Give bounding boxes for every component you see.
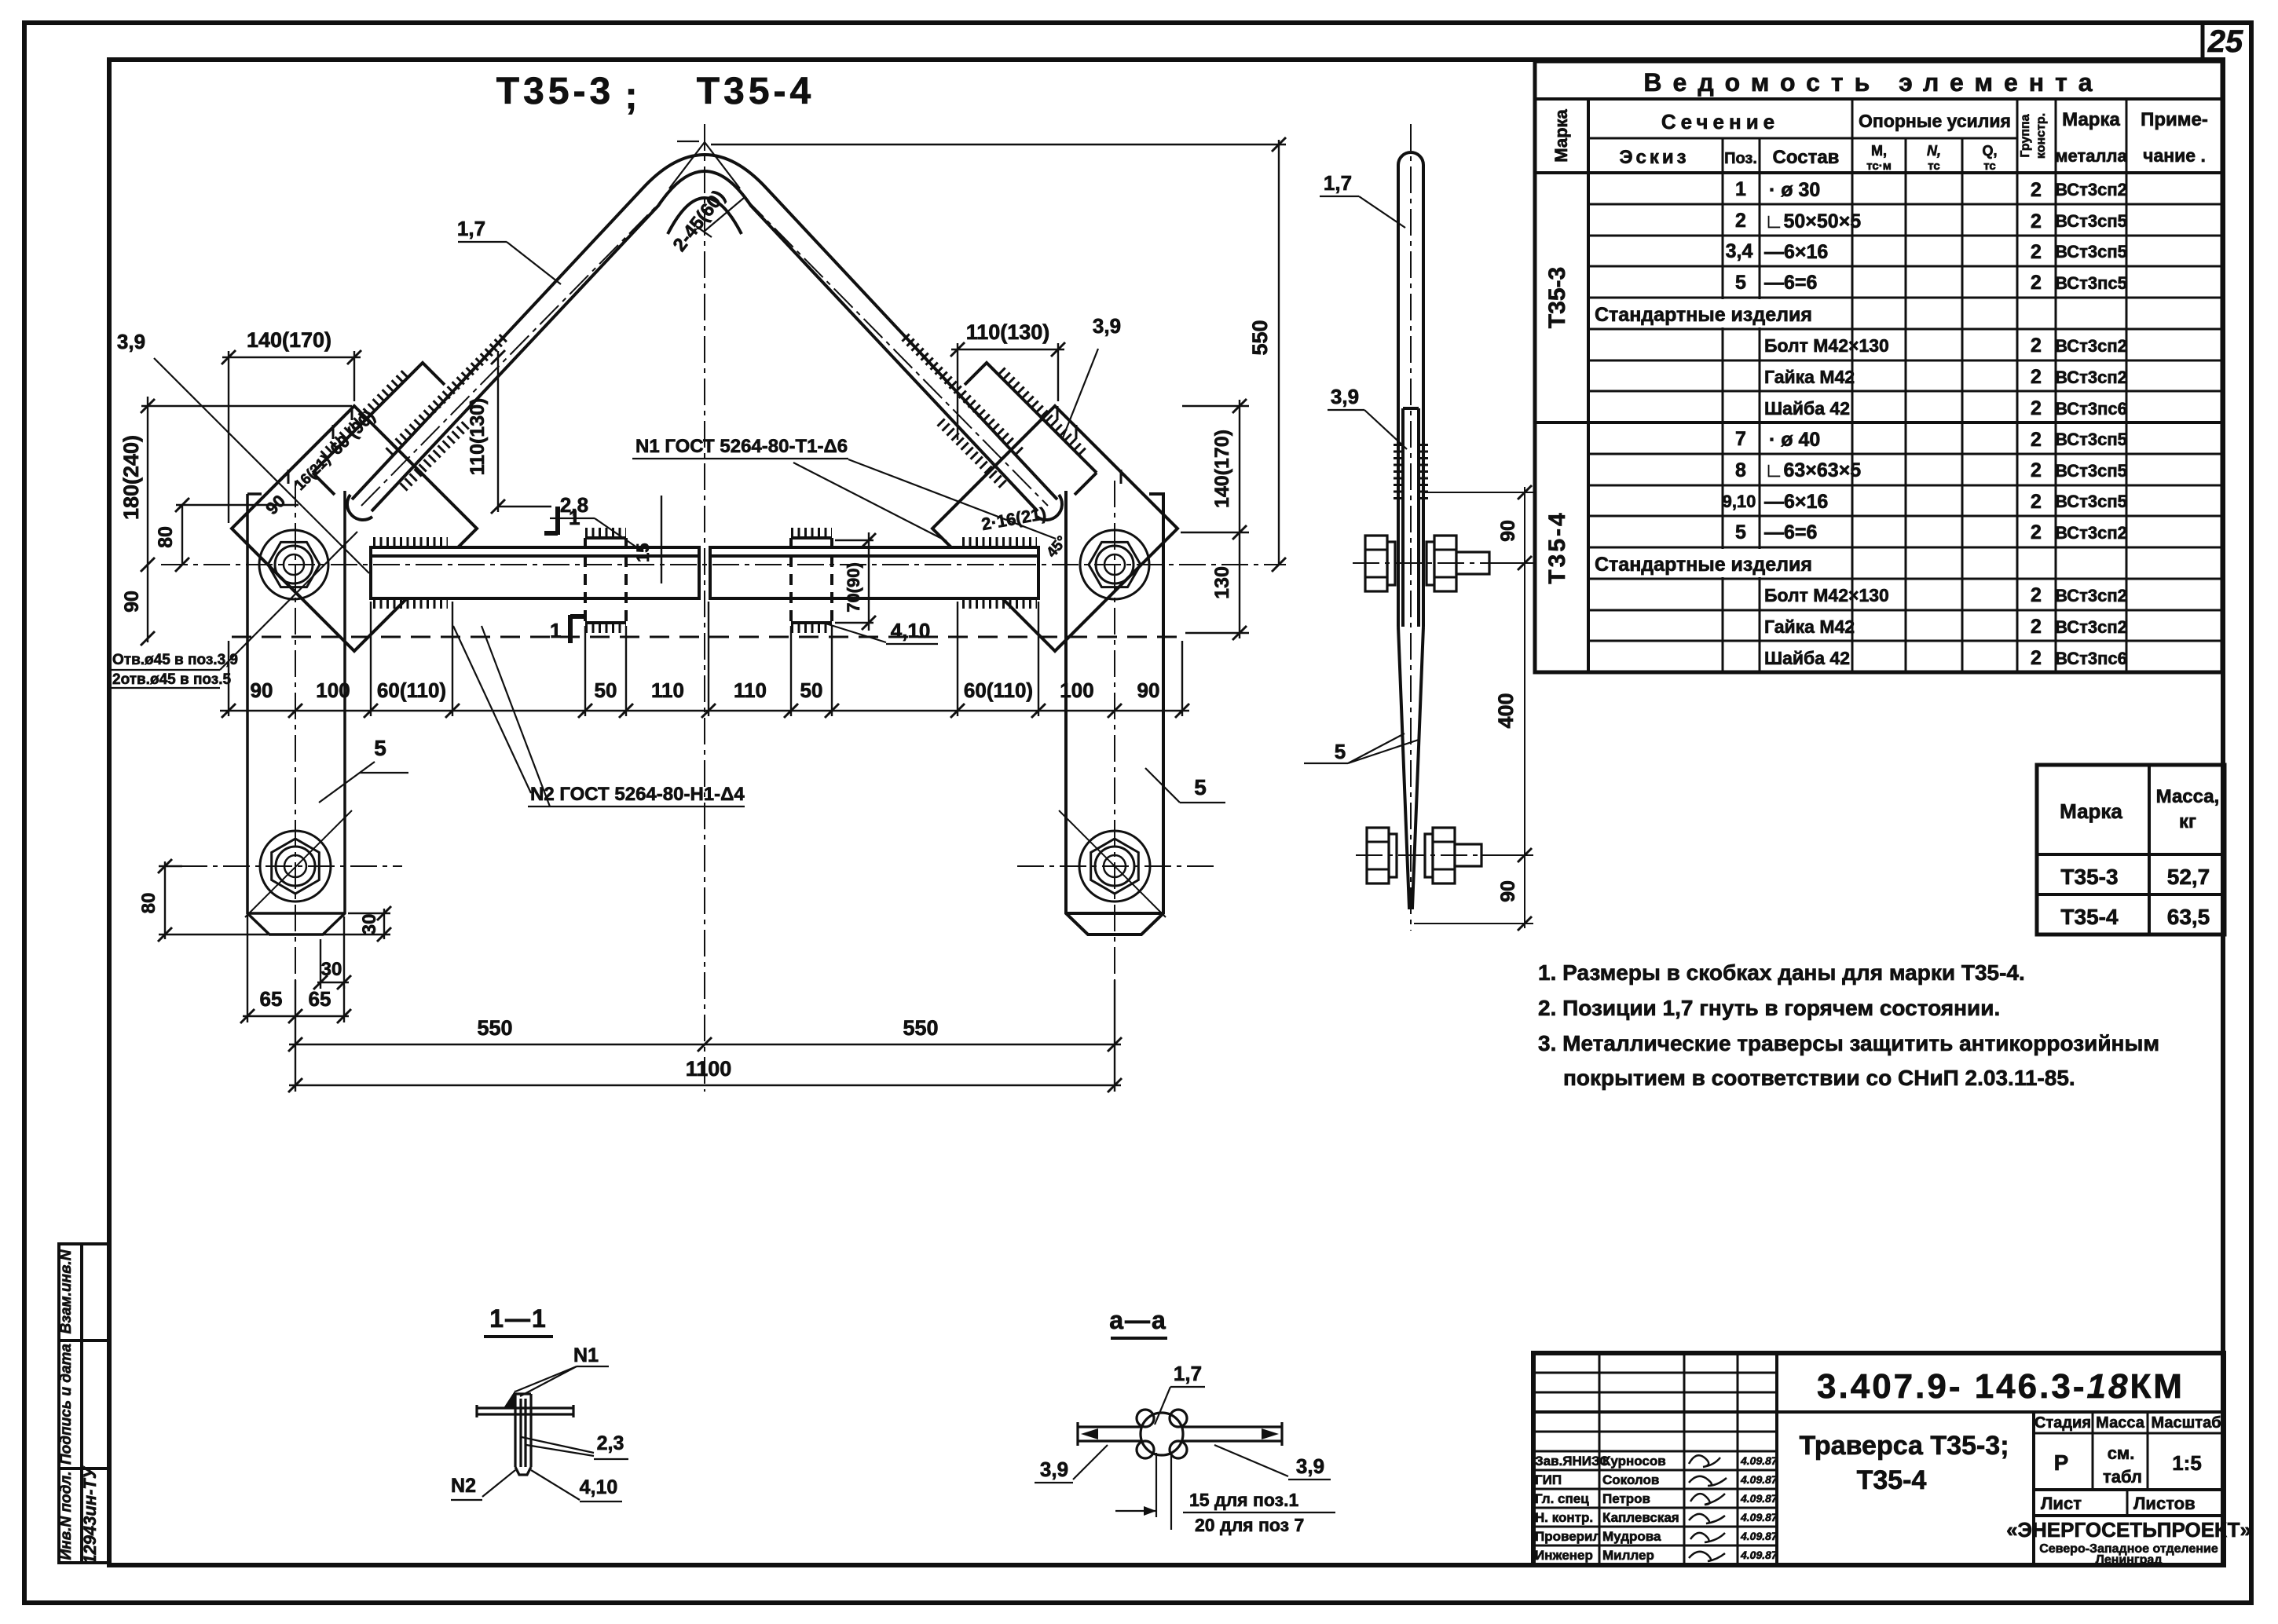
svg-text:550: 550: [477, 1016, 512, 1040]
550 550 1100: [289, 1044, 1121, 1045]
svg-text:90: 90: [1497, 520, 1519, 542]
svg-text:2: 2: [2031, 459, 2042, 481]
svg-text:3,9: 3,9: [1331, 385, 1359, 408]
svg-text:550: 550: [1248, 320, 1272, 355]
svg-text:2: 2: [1735, 210, 1746, 232]
svg-text:2: 2: [2031, 647, 2042, 669]
svg-text:12943ин-ТУ: 12943ин-ТУ: [80, 1465, 100, 1564]
svg-text:2: 2: [2031, 584, 2042, 606]
svg-text:90: 90: [251, 678, 273, 702]
svg-text:1:5: 1:5: [2172, 1451, 2202, 1475]
top-left dim 140(170): [222, 357, 361, 358]
sleeve plate right upper edge: [965, 363, 1097, 495]
svg-text:4.09.87: 4.09.87: [1740, 1530, 1778, 1542]
svg-text:Подпись и дата: Подпись и дата: [58, 1344, 75, 1465]
table header texts: [1544, 68, 2208, 584]
svg-text:Инв.N подл.: Инв.N подл.: [58, 1472, 75, 1560]
svg-text:ВСт3сп5: ВСт3сп5: [2055, 492, 2127, 511]
svg-text:Марка: Марка: [1551, 108, 1571, 162]
svg-text:15 для поз.1: 15 для поз.1: [1189, 1490, 1298, 1510]
svg-text:3,4: 3,4: [1726, 240, 1753, 262]
svg-text:Отв.ø45 в поз.3,9: Отв.ø45 в поз.3,9: [112, 652, 238, 668]
svg-text:Каплевская: Каплевская: [1602, 1510, 1679, 1525]
svg-text:а—а: а—а: [1109, 1306, 1167, 1334]
svg-text:тс: тс: [1928, 159, 1940, 173]
apex marker + bent note: [669, 141, 744, 237]
svg-text:Листов: Листов: [2133, 1494, 2196, 1513]
bolt lower-right: [1079, 831, 1150, 902]
svg-text:1: 1: [550, 619, 561, 642]
svg-text:110: 110: [651, 678, 684, 702]
left sidebar boxes: [59, 1244, 109, 1563]
svg-text:25: 25: [2207, 24, 2243, 59]
section cut marks 1-1: [544, 507, 584, 643]
svg-text:Поз.: Поз.: [1724, 150, 1757, 167]
svg-text:;: ;: [625, 75, 642, 117]
svg-text:60(110): 60(110): [377, 678, 446, 702]
svg-text:Лист: Лист: [2041, 1494, 2082, 1513]
svg-text:ВСт3сп2: ВСт3сп2: [2055, 180, 2127, 199]
svg-text:тс: тс: [1983, 159, 1996, 173]
bolts front view: [259, 530, 1150, 902]
svg-text:ВСт3сп2: ВСт3сп2: [2055, 617, 2127, 637]
bolt upper-right: [1080, 530, 1149, 599]
svg-text:5: 5: [374, 736, 386, 760]
svg-text:Эскиз: Эскиз: [1619, 147, 1689, 168]
svg-text:Т35-3: Т35-3: [1544, 267, 1570, 328]
svg-text:∟63×63×5: ∟63×63×5: [1764, 459, 1861, 481]
diagonal thin lines through lower bolts: [245, 810, 1166, 917]
svg-text:60(110): 60(110): [964, 678, 1033, 702]
svg-text:Н. контр.: Н. контр.: [1535, 1510, 1593, 1525]
bolt lower-left: [260, 831, 331, 902]
svg-text:3. Металлические траверсы за: 3. Металлические траверсы защитить антик…: [1538, 1031, 2159, 1055]
svg-text:Масса: Масса: [2096, 1414, 2145, 1432]
svg-text:2-45(60): 2-45(60): [669, 186, 730, 255]
svg-text:Масштаб: Масштаб: [2151, 1414, 2221, 1432]
svg-text:30: 30: [359, 914, 380, 935]
svg-text:N1: N1: [573, 1344, 599, 1366]
svg-text:Т35-4: Т35-4: [1857, 1465, 1927, 1495]
svg-text:20 для поз 7: 20 для поз 7: [1195, 1515, 1304, 1535]
svg-text:2: 2: [2031, 210, 2042, 232]
svg-text:металла: металла: [2055, 146, 2127, 166]
svg-text:Гл. спец: Гл. спец: [1535, 1491, 1589, 1506]
gusset strip 3,9: [1403, 408, 1419, 627]
svg-text:Q,: Q,: [1982, 143, 1997, 159]
svg-text:2: 2: [2031, 616, 2042, 638]
side view dims: [1414, 487, 1533, 928]
plate small dims: [383, 909, 385, 939]
svg-text:—6=6: —6=6: [1764, 272, 1817, 294]
bolt upper-left: [259, 530, 328, 599]
svg-text:Проверил: Проверил: [1535, 1529, 1601, 1544]
svg-text:110(130): 110(130): [966, 320, 1050, 344]
svg-text:Гайка М42: Гайка М42: [1764, 616, 1855, 637]
svg-text:4.09.87: 4.09.87: [1740, 1454, 1778, 1467]
svg-text:см.: см.: [2108, 1443, 2135, 1463]
svg-text:N,: N,: [1927, 143, 1941, 159]
svg-text:550: 550: [903, 1016, 938, 1040]
data row lines: [1588, 204, 2222, 641]
svg-text:Приме-: Приме-: [2141, 109, 2208, 130]
svg-text:Курносов: Курносов: [1602, 1454, 1666, 1469]
side view teeth: [1397, 444, 1424, 500]
page number box 25: [2203, 23, 2243, 60]
svg-text:Масса,: Масса,: [2156, 786, 2220, 807]
svg-text:Болт М42×130: Болт М42×130: [1764, 585, 1889, 605]
lower plate left (pos 5): [247, 491, 345, 935]
diamond gusset plate right (pos 3,9): [932, 406, 1177, 651]
svg-text:400: 400: [1494, 693, 1518, 728]
svg-text:4.09.87: 4.09.87: [1740, 1549, 1778, 1561]
svg-text:2: 2: [2031, 521, 2042, 543]
svg-text:1,7: 1,7: [1324, 171, 1352, 195]
svg-text:8: 8: [1735, 459, 1746, 481]
svg-text:50: 50: [595, 678, 617, 702]
svg-text:ВСт3пс6: ВСт3пс6: [2055, 399, 2127, 419]
centerlines: [161, 124, 1286, 1092]
svg-text:тс·м: тс·м: [1866, 159, 1892, 173]
svg-text:ВСт3пс5: ВСт3пс5: [2055, 273, 2127, 293]
svg-text:Т35-3: Т35-3: [496, 71, 614, 112]
svg-text:2: 2: [2031, 397, 2042, 419]
svg-text:N1 ГОСТ 5264-80-Т1-Δ6: N1 ГОСТ 5264-80-Т1-Δ6: [635, 436, 848, 457]
svg-text:1,7: 1,7: [457, 217, 485, 240]
svg-text:65: 65: [260, 987, 283, 1011]
svg-text:2: 2: [2031, 366, 2042, 388]
left joint vertical dim 110(130): [497, 351, 499, 512]
clamp plates pos 4,10 (hidden edges dashed): [585, 538, 832, 623]
svg-text:Т35-4: Т35-4: [2060, 905, 2119, 929]
dim texts front view: [119, 320, 1272, 1081]
svg-text:ГИП: ГИП: [1535, 1472, 1562, 1487]
svg-text:1: 1: [1735, 178, 1746, 200]
side view centerlines: [1353, 124, 1503, 931]
svg-text:100: 100: [1060, 678, 1093, 702]
svg-text:чание .: чание .: [2143, 145, 2206, 166]
tube right end cap: [1037, 495, 1062, 520]
svg-text:63,5: 63,5: [2167, 905, 2210, 929]
svg-text:50: 50: [800, 678, 823, 702]
svg-text:Инженер: Инженер: [1535, 1548, 1593, 1563]
bolt assemblies (white filled, occlude): [1365, 536, 1489, 883]
svg-text:2: 2: [2031, 179, 2042, 201]
svg-text:Мудрова: Мудрова: [1602, 1529, 1661, 1544]
svg-text:Марка: Марка: [2060, 799, 2122, 823]
svg-text:3,9: 3,9: [1040, 1458, 1068, 1481]
svg-text:ВСт3сп5: ВСт3сп5: [2055, 430, 2127, 449]
bottom dim line: [220, 710, 1189, 711]
svg-text:∟50×50×5: ∟50×50×5: [1764, 210, 1861, 232]
15 gap dim: [661, 496, 662, 583]
svg-text:ВСт3сп5: ВСт3сп5: [2055, 461, 2127, 481]
svg-text:5: 5: [1735, 521, 1746, 543]
svg-text:ВСт3сп2: ВСт3сп2: [2055, 586, 2127, 605]
svg-text:1,7: 1,7: [1174, 1362, 1202, 1385]
svg-text:Опорные усилия: Опорные усилия: [1859, 111, 2011, 131]
svg-text:—6×16: —6×16: [1764, 491, 1828, 513]
svg-text:—6=6: —6=6: [1764, 521, 1817, 543]
svg-text:Т35-3: Т35-3: [2060, 865, 2118, 889]
lower plate right (pos 5): [1066, 491, 1163, 935]
tube pos1 outer edge: [352, 155, 1057, 499]
svg-text:4,10: 4,10: [580, 1476, 618, 1498]
svg-text:N2: N2: [451, 1475, 476, 1497]
svg-text:Шайба 42: Шайба 42: [1764, 398, 1850, 419]
svg-text:65: 65: [309, 987, 331, 1011]
svg-text:Миллер: Миллер: [1602, 1548, 1654, 1563]
svg-text:Зав.ЯНИЗС: Зав.ЯНИЗС: [1535, 1454, 1610, 1469]
svg-text:ВСт3сп2: ВСт3сп2: [2055, 336, 2127, 356]
svg-text:5: 5: [1194, 775, 1207, 799]
svg-text:52,7: 52,7: [2167, 865, 2210, 889]
svg-text:70(90): 70(90): [844, 562, 863, 613]
svg-text:N2 ГОСТ 5264-80-Н1-Δ4: N2 ГОСТ 5264-80-Н1-Δ4: [530, 784, 745, 805]
svg-text:2: 2: [2031, 335, 2042, 357]
svg-text:90: 90: [1497, 880, 1519, 902]
svg-text:Болт М42×130: Болт М42×130: [1764, 335, 1889, 356]
svg-text:Петров: Петров: [1602, 1491, 1650, 1506]
svg-text:Взам.инв.N: Взам.инв.N: [58, 1249, 75, 1333]
svg-text:1. Размеры в скобках даны: 1. Размеры в скобках даны для марки Т35-…: [1538, 960, 2025, 985]
svg-text:ВСт3сп2: ВСт3сп2: [2055, 368, 2127, 387]
right top dim 110(130): [951, 349, 1064, 350]
svg-text:Марка: Марка: [2062, 109, 2120, 130]
svg-text:110(130): 110(130): [467, 398, 489, 476]
svg-text:ВСт3сп2: ВСт3сп2: [2055, 523, 2127, 543]
right chain: [1239, 400, 1240, 638]
svg-text:2: 2: [2031, 491, 2042, 513]
svg-text:Ленинград: Ленинград: [2096, 1553, 2163, 1567]
70(90) clamp height dim: [868, 532, 870, 631]
tube pos 1/7 silhouette: [1398, 152, 1423, 627]
svg-text:2·16(21): 2·16(21): [980, 503, 1048, 534]
svg-text:2отв.ø45 в поз.5: 2отв.ø45 в поз.5: [112, 671, 231, 688]
svg-text:90: 90: [1137, 678, 1160, 702]
weld teeth combs on bar: [373, 532, 1037, 628]
horizontal bar (pos 2) two halves, white filled to occlude: [371, 538, 1038, 623]
svg-text:7: 7: [1735, 428, 1746, 450]
svg-text:ВСт3сп5: ВСт3сп5: [2055, 242, 2127, 262]
svg-text:покрытием в соответствии со: покрытием в соответствии со СНиП 2.03.11…: [1563, 1066, 2075, 1090]
svg-text:80: 80: [155, 526, 177, 548]
svg-text:4.09.87: 4.09.87: [1740, 1511, 1778, 1523]
svg-text:2: 2: [2031, 241, 2042, 263]
side view labels: [1304, 196, 1419, 763]
sleeve plate left upper edge: [313, 363, 445, 495]
svg-text:2,3: 2,3: [597, 1432, 624, 1454]
svg-text:2: 2: [2031, 429, 2042, 451]
svg-text:3.407.9- 146.3-18КМ: 3.407.9- 146.3-18КМ: [1817, 1367, 2185, 1406]
svg-text:2. Позиции 1,7 гнуть в гор: 2. Позиции 1,7 гнуть в горячем состоянии…: [1538, 996, 2000, 1020]
table data: [1595, 178, 2127, 669]
svg-text:Ведомость элемента: Ведомость элемента: [1643, 68, 2103, 97]
hidden dashed line: [232, 636, 1181, 638]
svg-text:кг: кг: [2179, 811, 2196, 832]
svg-text:Шайба 42: Шайба 42: [1764, 648, 1850, 668]
svg-text:140(170): 140(170): [247, 328, 331, 352]
svg-text:1100: 1100: [686, 1057, 732, 1081]
svg-text:5: 5: [1335, 740, 1346, 763]
signatures squiggles: [1689, 1455, 1727, 1561]
svg-text:9,10: 9,10: [1723, 492, 1756, 511]
svg-text:15: 15: [633, 543, 653, 562]
ticks on diamond diagonal dim chain: [288, 406, 1121, 484]
svg-text:Состав: Состав: [1773, 147, 1840, 168]
dim ticks: [141, 137, 1286, 1092]
svg-text:—6×16: —6×16: [1764, 241, 1828, 263]
svg-text:Стандартные изделия: Стандартные изделия: [1595, 304, 1812, 326]
svg-text:«ЭНЕРГОСЕТЬПРОЕКТ»: «ЭНЕРГОСЕТЬПРОЕКТ»: [2006, 1518, 2251, 1542]
svg-text:Стадия: Стадия: [2034, 1414, 2091, 1432]
diamond gusset plate left (pos 3,9): [232, 406, 477, 651]
svg-text:140(170): 140(170): [1211, 430, 1233, 508]
svg-text:3,9: 3,9: [1296, 1454, 1324, 1478]
tube pos1 inner edge: [372, 171, 1038, 511]
svg-text:1—1: 1—1: [489, 1304, 548, 1333]
svg-text:Сечение: Сечение: [1661, 110, 1779, 134]
sheet title T35-3 ; T35-4: [496, 71, 815, 117]
svg-text:ВСт3пс6: ВСт3пс6: [2055, 649, 2127, 668]
svg-text:Т35-4: Т35-4: [697, 71, 815, 112]
svg-text:М,: М,: [1871, 143, 1887, 159]
svg-text:4.09.87: 4.09.87: [1740, 1473, 1778, 1486]
svg-text:констр.: констр.: [2034, 113, 2048, 159]
svg-text:180(240): 180(240): [119, 435, 143, 520]
taper plates 5: [1398, 627, 1423, 908]
svg-text:3,9: 3,9: [117, 330, 145, 353]
svg-text:4,10: 4,10: [891, 619, 931, 642]
svg-text:80: 80: [138, 893, 159, 914]
tube bend inner arc: [668, 198, 742, 234]
svg-text:30: 30: [321, 959, 342, 980]
svg-text:табл: табл: [2103, 1467, 2142, 1487]
svg-text:· ø 30: · ø 30: [1769, 179, 1820, 201]
far right 550: [1278, 140, 1280, 565]
weld teeth combs on tube and sleeves: [324, 337, 1086, 488]
svg-text:5: 5: [1735, 272, 1746, 294]
svg-text:1: 1: [569, 506, 580, 529]
left vertical chain: [147, 397, 148, 642]
svg-text:3,9: 3,9: [1093, 314, 1121, 338]
svg-text:110: 110: [734, 678, 767, 702]
svg-text:Стандартные изделия: Стандартные изделия: [1595, 554, 1812, 576]
svg-text:2: 2: [2031, 272, 2042, 294]
svg-text:· ø 40: · ø 40: [1769, 429, 1820, 451]
svg-text:130: 130: [1211, 566, 1233, 599]
svg-text:Группа: Группа: [2019, 114, 2032, 157]
svg-text:ВСт3сп5: ВСт3сп5: [2055, 211, 2127, 231]
svg-text:Т35-4: Т35-4: [1544, 510, 1570, 583]
svg-text:Соколов: Соколов: [1602, 1472, 1659, 1487]
svg-text:100: 100: [316, 678, 350, 702]
svg-text:Траверса Т35-3;: Траверса Т35-3;: [1799, 1431, 2009, 1461]
tube left end cap: [347, 495, 372, 520]
svg-text:4.09.87: 4.09.87: [1740, 1492, 1778, 1505]
svg-text:Гайка М42: Гайка М42: [1764, 367, 1855, 387]
leaders and labels: [111, 242, 1225, 807]
svg-text:90: 90: [121, 591, 143, 613]
svg-text:Р: Р: [2054, 1450, 2069, 1475]
